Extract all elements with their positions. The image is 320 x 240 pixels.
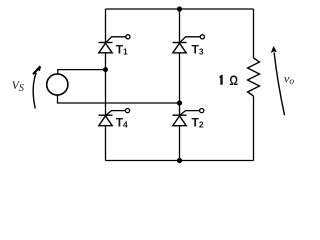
svg-text:T3: T3	[192, 42, 204, 56]
svg-text:VS: VS	[12, 80, 24, 94]
svg-text:T1: T1	[116, 42, 128, 56]
svg-text:vo: vo	[284, 71, 294, 87]
svg-text:Ω: Ω	[229, 72, 238, 88]
svg-text:T2: T2	[192, 115, 204, 129]
svg-text:T4: T4	[116, 115, 128, 129]
